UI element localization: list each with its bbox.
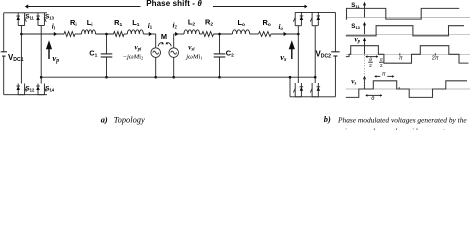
svg-text:π: π <box>382 71 386 77</box>
svg-text:C1: C1 <box>89 49 97 59</box>
svg-text:π: π <box>399 55 403 61</box>
svg-text:M: M <box>161 32 167 41</box>
svg-text:θ: θ <box>371 96 374 102</box>
svg-text:Lo: Lo <box>238 18 246 28</box>
svg-text:b): b) <box>324 115 331 124</box>
svg-text:Phase shift - θ: Phase shift - θ <box>146 0 202 8</box>
svg-text:vp: vp <box>355 36 361 45</box>
svg-text:S14: S14 <box>45 85 55 92</box>
svg-text:2: 2 <box>380 63 383 69</box>
svg-text:Phase modulated voltages gener: Phase modulated voltages generated by th… <box>337 115 467 124</box>
svg-text:L2: L2 <box>188 17 196 27</box>
svg-text:Li: Li <box>87 18 93 28</box>
svg-text:Ro: Ro <box>263 18 271 28</box>
svg-text:io: io <box>279 23 284 32</box>
svg-text:jωMi1: jωMi1 <box>185 54 202 61</box>
svg-text:S13: S13 <box>45 13 55 20</box>
svg-text:2: 2 <box>369 63 372 69</box>
svg-text:Ri: Ri <box>70 18 77 28</box>
svg-text:S11: S11 <box>351 2 360 9</box>
svg-text:ii: ii <box>52 23 56 32</box>
svg-text:i2: i2 <box>173 21 178 30</box>
svg-text:primary and secondary side con: primary and secondary side converters <box>337 126 454 130</box>
svg-text:a): a) <box>101 115 108 124</box>
svg-text:L1: L1 <box>132 18 140 28</box>
svg-text:Topology: Topology <box>114 115 145 124</box>
svg-text:S11: S11 <box>25 13 34 20</box>
svg-text:−jωMi2: −jωMi2 <box>123 54 144 61</box>
svg-text:C2: C2 <box>226 49 234 59</box>
svg-text:vsi: vsi <box>188 44 195 53</box>
svg-text:vp: vp <box>52 53 59 64</box>
svg-text:R1: R1 <box>114 18 122 28</box>
svg-text:VDC2: VDC2 <box>316 49 332 59</box>
svg-text:R2: R2 <box>205 17 213 27</box>
svg-text:i1: i1 <box>148 22 153 31</box>
svg-text:S13: S13 <box>351 23 360 30</box>
svg-text:vs: vs <box>351 77 356 86</box>
svg-text:2π: 2π <box>432 55 439 61</box>
svg-text:vpi: vpi <box>135 44 143 53</box>
svg-text:vs: vs <box>280 52 287 63</box>
svg-text:S12: S12 <box>25 85 35 92</box>
